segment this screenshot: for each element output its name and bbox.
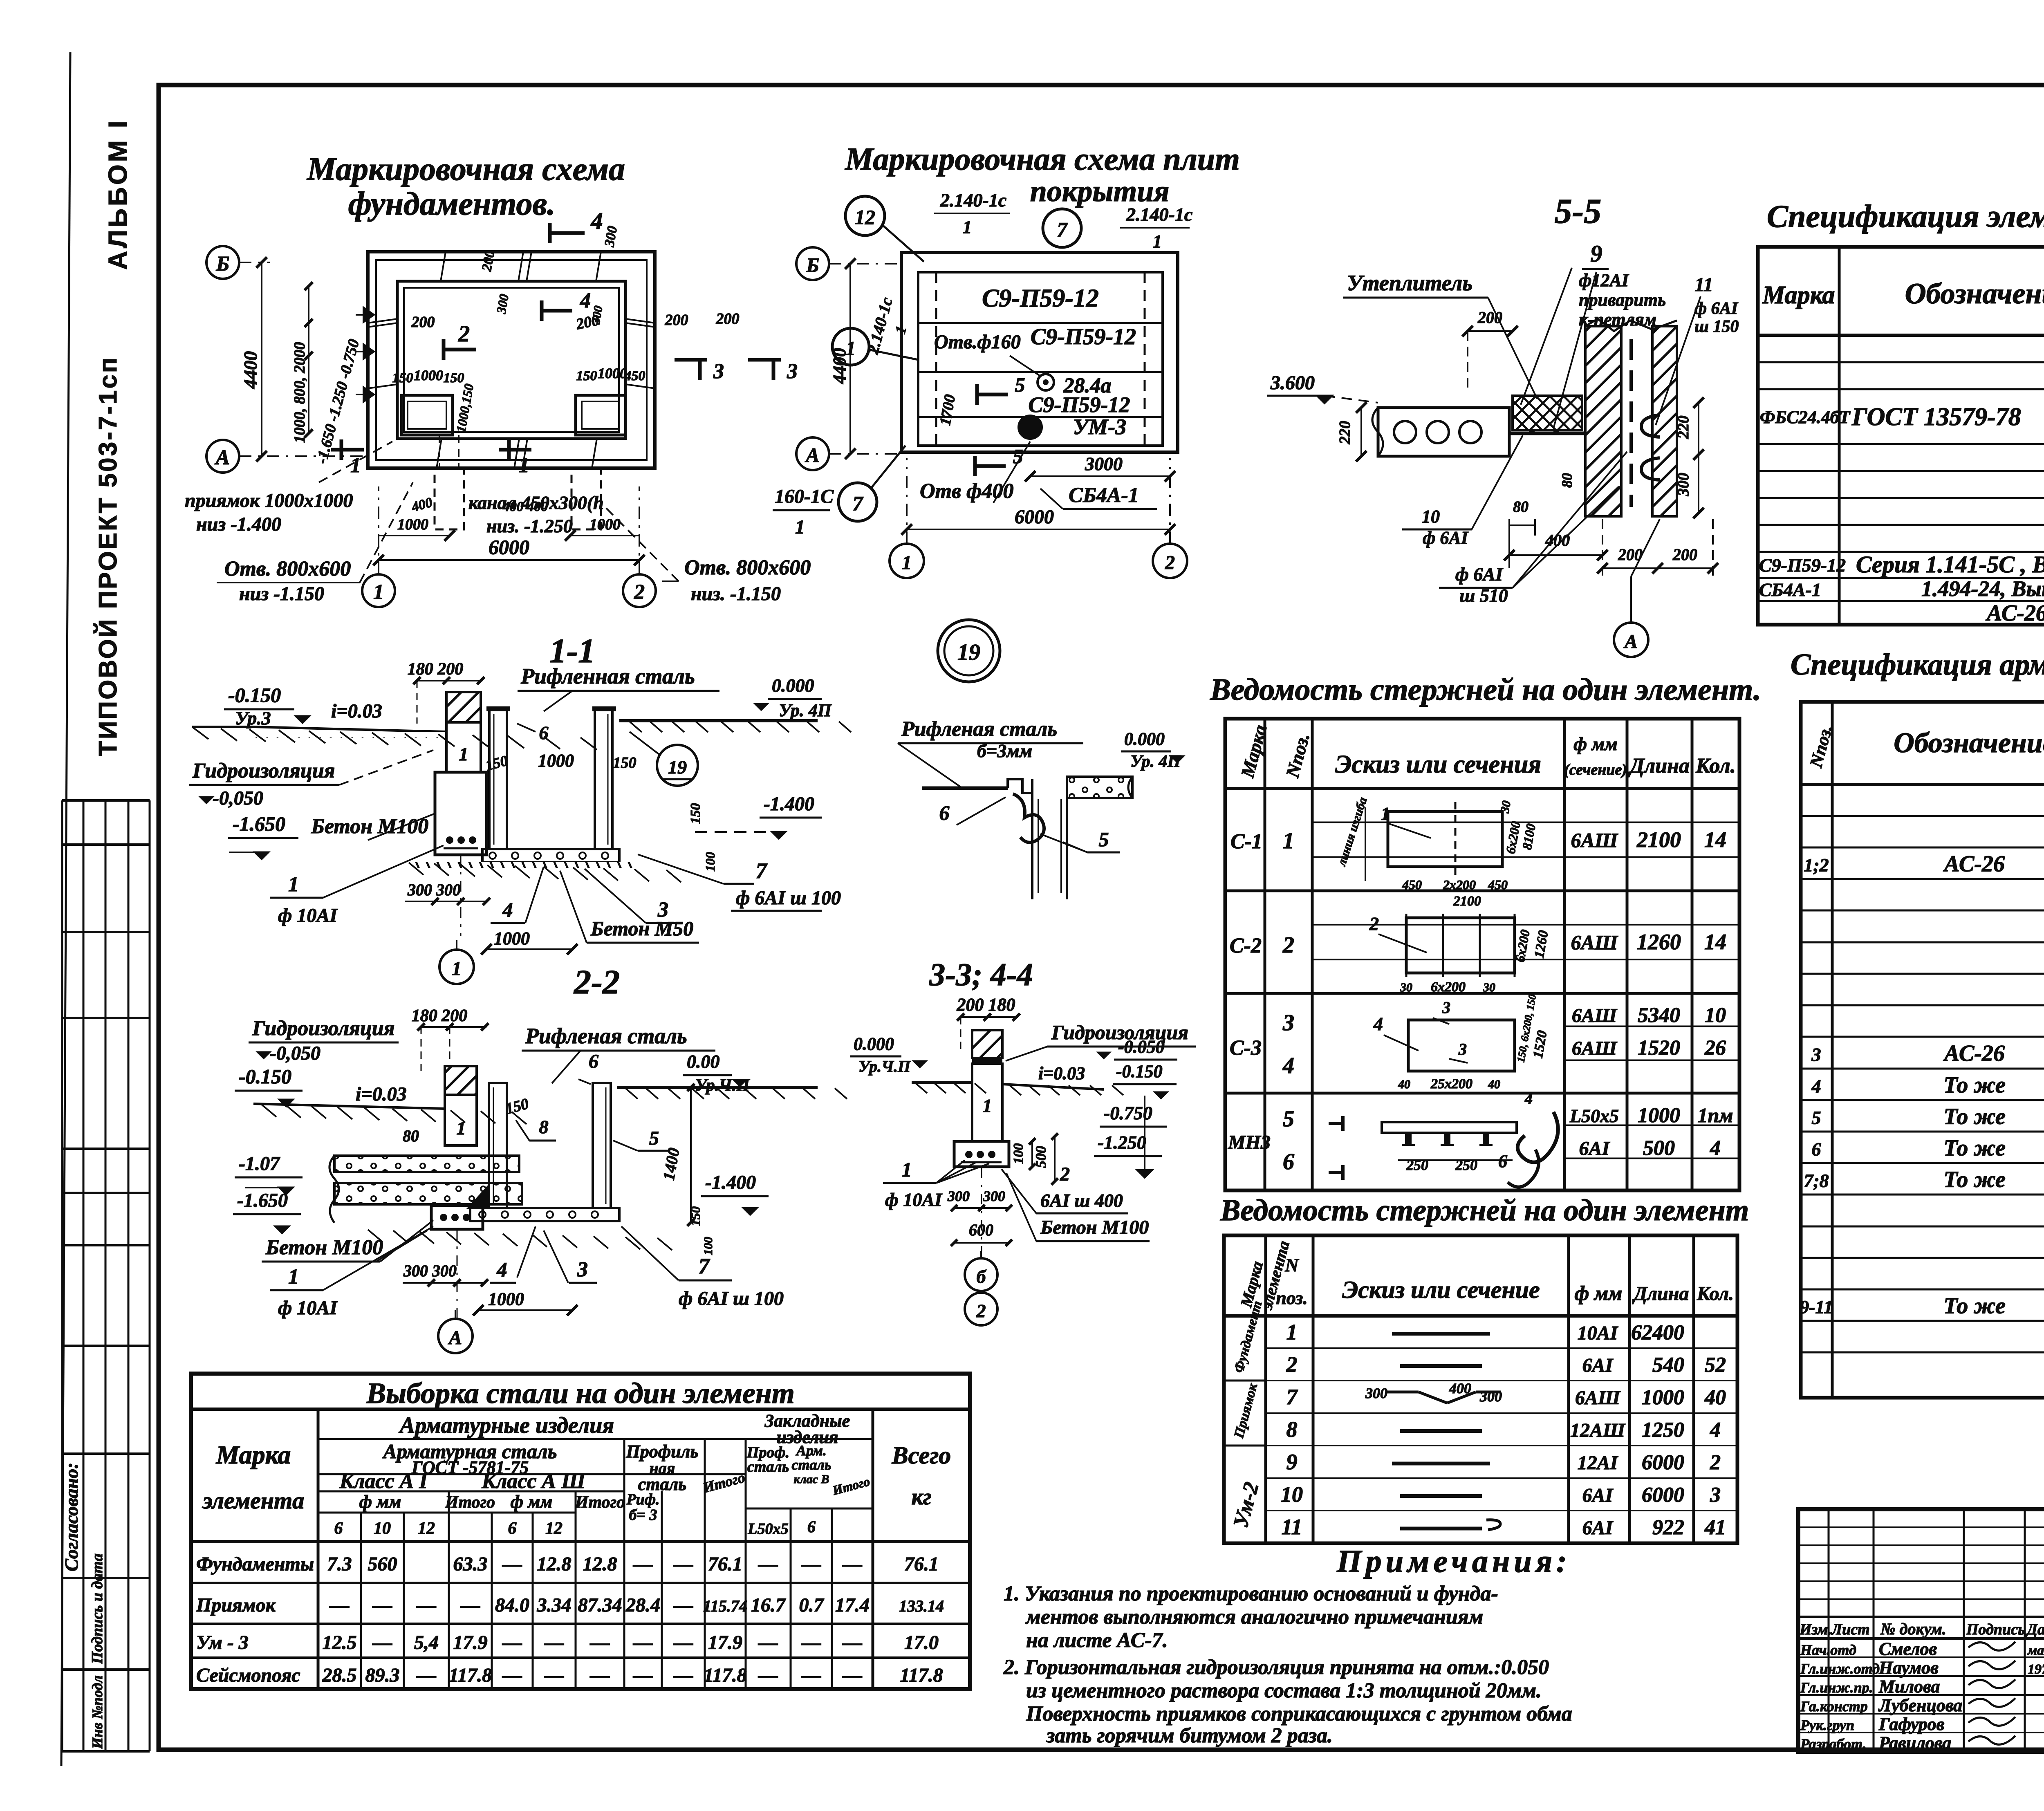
svg-text:2: 2 [1710,1451,1721,1474]
svg-text:Обозначение: Обозначение [1894,727,2044,759]
svg-text:30: 30 [1483,981,1495,994]
svg-text:—: — [502,1632,522,1654]
svg-text:600: 600 [969,1221,993,1239]
svg-text:10АI: 10АI [1578,1322,1619,1344]
svg-text:2.140-1с: 2.140-1с [1126,204,1192,225]
svg-text:84.0: 84.0 [495,1594,529,1616]
sec11 soil under [409,862,638,868]
svg-text:500: 500 [1643,1136,1675,1160]
section mark 1 bottom-mid [507,439,511,460]
svg-text:Га.констр: Га.констр [1800,1698,1868,1715]
svg-text:Рук.груп: Рук.груп [1800,1717,1854,1733]
svg-text:Класс А Ш: Класс А Ш [481,1470,586,1493]
svg-text:5: 5 [1015,373,1025,396]
svg-text:Рифленная сталь: Рифленная сталь [520,664,695,688]
svg-text:200: 200 [479,249,498,273]
detail drawing [922,787,1008,790]
svg-text:N: N [1284,1255,1299,1275]
svg-text:Гл.инж.отд: Гл.инж.отд [1800,1661,1880,1677]
svg-text:7: 7 [699,1254,710,1278]
svg-text:17.0: 17.0 [904,1632,939,1654]
svg-text:—: — [758,1553,778,1575]
sec22 pit bottom angle [468,1186,489,1208]
svg-text:—: — [673,1665,693,1686]
dim 3000 [1030,475,1170,477]
svg-text:-1.650: -1.650 [233,812,285,835]
svg-text:9: 9 [1591,240,1602,267]
vedomost1 grid [1225,719,1739,1190]
svg-text:450: 450 [1488,877,1508,892]
svg-text:62400: 62400 [1631,1321,1684,1345]
svg-text:5: 5 [1812,1107,1821,1128]
svg-text:19: 19 [957,640,980,665]
svg-text:А: А [448,1327,462,1349]
svg-text:200: 200 [1672,545,1697,564]
svg-text:А: А [215,446,230,469]
svg-text:Разработ.: Разработ. [1800,1736,1867,1752]
axis circle 1 plan1 [362,574,395,607]
sec11 ground right [619,719,818,722]
title block small table rows [1798,1526,2044,1528]
sec22 foundation block [431,1206,483,1229]
svg-text:-0.050: -0.050 [1118,1037,1165,1057]
svg-text:26: 26 [1704,1036,1726,1060]
svg-text:клас В: клас В [793,1473,829,1486]
svg-text:2: 2 [1282,932,1294,958]
sec33 column [972,1030,1002,1058]
svg-text:500: 500 [1033,1146,1049,1168]
sec55 insulation [1513,396,1582,430]
svg-text:6: 6 [508,1519,517,1538]
svg-text:—: — [633,1632,653,1654]
svg-text:52: 52 [1705,1354,1726,1377]
axis circle 12 [845,196,885,235]
svg-text:1;2: 1;2 [1804,855,1829,876]
svg-text:приямок 1000x1000: приямок 1000x1000 [185,490,353,511]
svg-text:12: 12 [418,1519,435,1538]
svg-text:6: 6 [939,801,950,824]
svg-text:80: 80 [403,1127,419,1145]
svg-text:400: 400 [410,495,434,515]
svg-text:3: 3 [787,360,798,383]
svg-text:покрытия: покрытия [1030,175,1170,208]
svg-text:Риф.: Риф. [626,1491,659,1508]
svg-text:МН3: МН3 [1228,1132,1271,1153]
svg-text:Отв.ф160: Отв.ф160 [934,331,1021,353]
svg-text:300: 300 [1675,473,1692,497]
svg-text:4: 4 [1373,1013,1383,1034]
svg-text:б: б [977,1266,987,1287]
svg-text:4400: 4400 [240,351,261,389]
svg-text:0.000: 0.000 [772,675,814,696]
sec33 ground [912,1081,972,1084]
svg-text:1: 1 [795,516,805,538]
svg-text:922: 922 [1652,1516,1684,1539]
MN3 hook [1517,1112,1558,1162]
svg-text:12: 12 [545,1519,563,1538]
svg-text:Дата: Дата [2026,1621,2044,1638]
sec11 hatched column top [446,692,481,722]
svg-text:1: 1 [452,958,462,979]
svg-text:6000: 6000 [1642,1451,1684,1474]
svg-text:С-3: С-3 [1230,1036,1262,1060]
svg-text:А: А [805,444,819,466]
svg-text:Изм.: Изм. [1799,1621,1832,1638]
svg-text:Отв. 800x600: Отв. 800x600 [224,557,351,581]
dim chain 1000 800 2000 [308,286,309,433]
svg-text:180 200: 180 200 [412,1006,468,1025]
svg-text:0.000: 0.000 [1124,729,1165,749]
svg-text:АС-26: АС-26 [1986,601,2044,626]
svg-text:160-1С: 160-1С [775,486,834,507]
svg-text:к-петлям: к-петлям [1579,309,1656,329]
svg-text:10: 10 [374,1519,391,1538]
svg-text:Длина: Длина [1628,754,1690,778]
svg-text:0.7: 0.7 [799,1594,825,1616]
svg-text:200: 200 [665,312,688,329]
svg-text:6: 6 [589,1051,598,1072]
svg-text:6: 6 [334,1519,343,1538]
svg-text:С9-П59-12: С9-П59-12 [982,285,1099,312]
svg-text:150: 150 [444,370,464,386]
svg-text:—: — [801,1665,821,1686]
sec22 ground right [617,1086,818,1089]
svg-text:28.4: 28.4 [625,1594,660,1616]
svg-text:1250: 1250 [1642,1419,1684,1442]
svg-text:6АI: 6АI [1582,1355,1614,1376]
svg-text:3.34: 3.34 [537,1594,572,1616]
svg-text:115.74: 115.74 [703,1597,747,1615]
svg-text:Ур. 4П: Ур. 4П [779,700,832,720]
svg-text:С9-П59-12: С9-П59-12 [1759,555,1846,576]
svg-text:4: 4 [1524,1090,1533,1107]
svg-text:150: 150 [688,1206,703,1226]
svg-text:87.34: 87.34 [578,1594,622,1616]
svg-text:1000: 1000 [494,928,530,948]
svg-text:2: 2 [1286,1352,1298,1377]
svg-text:4: 4 [591,208,603,234]
svg-text:2: 2 [1369,913,1379,934]
svg-text:300: 300 [947,1188,970,1204]
sec11 axis 1 [439,950,474,984]
svg-text:4: 4 [580,289,591,312]
svg-text:5: 5 [1283,1106,1294,1132]
svg-text:41: 41 [1704,1516,1726,1539]
svg-text:1.494-24, Вып.1: 1.494-24, Вып.1 [1921,576,2044,601]
svg-text:28.5: 28.5 [322,1665,357,1686]
svg-text:300 300: 300 300 [407,881,461,899]
svg-text:40: 40 [1488,1078,1500,1091]
svg-text:4: 4 [1710,1419,1721,1442]
svg-text:—: — [673,1553,693,1575]
plan2 outer [901,253,1178,452]
svg-text:СБ4А-1: СБ4А-1 [1759,579,1821,600]
svg-text:Длина: Длина [1632,1283,1689,1304]
svg-text:—: — [633,1665,653,1686]
svg-text:С9-П59-12: С9-П59-12 [1029,392,1130,417]
svg-text:300: 300 [1479,1388,1502,1405]
svg-text:Класс А I: Класс А I [339,1470,428,1493]
svg-text:Подпись: Подпись [1966,1621,2025,1638]
svg-text:17.9: 17.9 [453,1632,488,1654]
svg-text:150: 150 [688,803,703,824]
section mark 2 [442,339,446,360]
svg-text:Ум-2: Ум-2 [1229,1480,1264,1530]
svg-text:Милова: Милова [1878,1677,1940,1697]
sec22 pit floor slab [470,1208,619,1221]
signature squiggles [1968,1642,2015,1650]
svg-text:приварить: приварить [1579,290,1666,310]
svg-text:ф 6АI: ф 6АI [1423,528,1469,548]
sec55 dim 200 200 [1602,567,1713,569]
vedomost1 sub rows right columns [1312,822,1627,823]
sec55 wall rebar loops [1629,339,1633,507]
svg-text:Кол.: Кол. [1697,1283,1734,1304]
vedomost2 bent bar row 7 [1386,1391,1419,1394]
svg-text:Ведомость стержней на один эле: Ведомость стержней на один элемент. [1210,672,1761,707]
axis circle 2 plan1 [623,574,656,607]
svg-text:L50x5: L50x5 [1569,1105,1619,1126]
svg-text:ф мм: ф мм [1573,733,1617,754]
svg-text:6АI: 6АI [1582,1517,1614,1539]
svg-text:1520: 1520 [1530,1029,1550,1059]
svg-text:12АШ: 12АШ [1570,1420,1626,1441]
svg-text:Сейсмопояс: Сейсмопояс [196,1665,300,1686]
svg-text:220: 220 [1336,421,1354,445]
dim 6000 bottom plan1 [379,559,639,561]
svg-text:—: — [544,1632,564,1654]
svg-text:220: 220 [1675,416,1692,439]
svg-text:4: 4 [502,898,513,921]
svg-text:2: 2 [634,581,645,604]
svg-text:6: 6 [807,1517,816,1536]
svg-text:Марка: Марка [216,1440,291,1469]
svg-text:2: 2 [458,321,470,347]
svg-text:№ докум.: № докум. [1880,1620,1946,1638]
svg-text:1: 1 [902,1158,912,1181]
svg-text:6: 6 [1498,1151,1507,1171]
svg-text:12.8: 12.8 [583,1553,617,1575]
section mark 4 inner [540,300,544,321]
svg-text:6: 6 [1283,1149,1294,1174]
svg-text:элемента: элемента [202,1487,304,1514]
svg-text:16.7: 16.7 [751,1594,786,1616]
svg-text:1: 1 [1381,804,1390,824]
svg-text:450: 450 [1402,877,1422,892]
svg-text:Nпоз.: Nпоз. [1282,731,1313,780]
svg-text:1: 1 [288,1265,299,1289]
svg-text:6АШ: 6АШ [1571,829,1618,852]
svg-text:Примечания:: Примечания: [1336,1543,1571,1579]
svg-text:133.14: 133.14 [899,1597,944,1615]
svg-text:—: — [372,1594,392,1616]
svg-text:6000: 6000 [1642,1484,1684,1507]
vyborka header grid [317,1409,320,1689]
svg-text:-0,050: -0,050 [213,787,263,809]
svg-text:40: 40 [1704,1386,1726,1409]
svg-text:1: 1 [350,454,361,477]
svg-text:1979г: 1979г [2028,1662,2044,1677]
svg-text:1700: 1700 [937,393,959,427]
svg-text:150: 150 [576,368,597,383]
svg-text:560: 560 [368,1553,397,1575]
svg-text:63.3: 63.3 [453,1553,488,1575]
dim 4400 vertical plan1 [261,262,262,456]
sec11 19 circle [657,745,698,786]
svg-text:ф мм: ф мм [359,1492,401,1512]
svg-text:1: 1 [1286,1320,1298,1345]
axis circle A plan1 [206,440,239,473]
svg-text:3: 3 [1458,1040,1467,1058]
svg-text:11: 11 [1281,1515,1302,1539]
svg-text:ф 10АI: ф 10АI [885,1189,943,1210]
svg-text:300 300: 300 300 [403,1262,457,1280]
svg-text:—: — [590,1632,610,1654]
svg-text:76.1: 76.1 [904,1553,939,1575]
svg-text:12: 12 [855,206,875,229]
svg-text:Арматурные изделия: Арматурные изделия [399,1413,614,1438]
sec55 top break [1585,319,1677,331]
svg-text:Итого: Итого [701,1469,747,1496]
svg-text:-0.150: -0.150 [239,1065,291,1088]
sec22 ground left [253,1104,445,1109]
svg-text:АС-26: АС-26 [1943,1041,2005,1066]
svg-text:ш 150: ш 150 [1694,317,1739,336]
svg-text:-1.650: -1.650 [237,1190,288,1211]
sec55 hollow core slab [1378,408,1509,456]
svg-text:7: 7 [1286,1385,1298,1409]
svg-text:100: 100 [703,852,717,872]
svg-text:5340: 5340 [1638,1004,1680,1027]
svg-text:3: 3 [577,1258,588,1281]
svg-text:6000: 6000 [1015,506,1054,528]
svg-text:низ. -1.250: низ. -1.250 [486,516,573,536]
svg-text:6000: 6000 [489,536,529,558]
axis circle 7 bottom [838,483,877,521]
svg-text:Ум - 3: Ум - 3 [196,1632,249,1654]
svg-text:То же: То же [1943,1167,2006,1192]
svg-text:3: 3 [1282,1010,1294,1035]
svg-text:4: 4 [1282,1053,1294,1078]
svg-text:200: 200 [574,312,601,333]
svg-text:—: — [673,1594,693,1616]
section marks 5 [975,384,979,405]
svg-text:Профиль: Профиль [626,1441,699,1461]
svg-text:1: 1 [902,552,912,574]
sec11 foundation block [435,772,486,855]
vyborka body rows [191,1540,970,1543]
svg-text:19: 19 [668,757,687,778]
svg-text:4: 4 [497,1258,507,1281]
sec11 pit top angles [486,706,510,711]
svg-text:-0,050: -0,050 [270,1042,320,1064]
svg-text:-1.250: -1.250 [1098,1132,1146,1153]
svg-text:1пм: 1пм [1697,1104,1733,1127]
svg-text:40: 40 [1398,1078,1410,1091]
svg-text:низ. -1.150: низ. -1.150 [691,583,781,605]
svg-text:А: А [1623,631,1638,652]
svg-text:Бетон М100: Бетон М100 [265,1236,383,1259]
svg-text:10: 10 [1422,507,1440,527]
plan1 walls [368,252,655,468]
svg-text:17.9: 17.9 [708,1632,742,1654]
plan1 pit 1 [401,395,453,435]
svg-text:Нач.отд: Нач.отд [1800,1642,1856,1658]
sheet edge left [61,52,70,1766]
svg-text:фундаментов.: фундаментов. [348,186,555,222]
svg-text:зать горячим битумом 2 раз: зать горячим битумом 2 раза. [1046,1724,1333,1747]
svg-text:100: 100 [1011,1143,1026,1164]
svg-text:6x200: 6x200 [1503,820,1523,855]
svg-text:1000, 800, 2000: 1000, 800, 2000 [291,342,308,443]
svg-text:—: — [842,1665,862,1686]
sec22 pit walls [489,1083,507,1208]
svg-text:Кол.: Кол. [1695,754,1736,778]
svg-text:300: 300 [983,1188,1005,1204]
svg-text:АЛЬБОМ I: АЛЬБОМ I [103,118,132,270]
plan1 canal stubs below [435,468,464,529]
svg-text:май: май [2027,1643,2044,1658]
axis circle B plan1 [206,246,239,279]
svg-text:Лубенцова: Лубенцова [1878,1695,1962,1715]
svg-text:ФБС24.4бТ: ФБС24.4бТ [1760,407,1851,427]
sec55 wall hatched [1585,326,1621,516]
svg-text:6АШ: 6АШ [1572,1038,1618,1059]
axis circle 7 top [1043,209,1081,247]
svg-text:1: 1 [846,338,856,359]
svg-text:1: 1 [963,217,972,237]
axis circle B shared [796,247,829,280]
svg-text:ф 6АI: ф 6АI [1455,564,1504,585]
dim 6000 plan2 [907,529,1170,530]
svg-text:Лист: Лист [1831,1621,1870,1638]
svg-text:7;8: 7;8 [1804,1170,1829,1191]
svg-text:Марка: Марка [1762,281,1835,309]
axis circle 2 bottom plan2 [1153,544,1187,578]
svg-text:—: — [842,1632,862,1654]
svg-text:Арм.: Арм. [796,1442,827,1459]
svg-text:ф мм: ф мм [511,1492,553,1512]
svg-text:Гидроизоляция: Гидроизоляция [192,759,335,782]
sec33 foundation [954,1141,1009,1167]
svg-text:сталь: сталь [747,1458,789,1475]
svg-text:300: 300 [1365,1385,1387,1401]
svg-text:0.000: 0.000 [854,1034,894,1054]
svg-text:То же: То же [1943,1073,2006,1098]
svg-text:—: — [758,1665,778,1686]
svg-text:Итого: Итого [831,1474,872,1498]
svg-text:117.8: 117.8 [900,1665,943,1686]
svg-text:-1.400: -1.400 [705,1172,756,1193]
svg-text:30: 30 [1400,981,1412,994]
plan2 plate lines [918,322,1163,324]
axis circle 1 bottom plan2 [890,544,924,578]
svg-text:Гидроизоляция: Гидроизоляция [252,1017,394,1040]
svg-text:ТИПОВОЙ ПРОЕКТ 503-7-1сп: ТИПОВОЙ ПРОЕКТ 503-7-1сп [94,356,122,756]
svg-text:150: 150 [392,370,413,386]
svg-text:ф 6АI ш 100: ф 6АI ш 100 [736,887,841,909]
svg-text:1260: 1260 [1637,930,1681,954]
svg-text:Б: Б [806,253,819,276]
svg-text:300: 300 [602,225,620,249]
svg-text:Приямок: Приямок [196,1594,276,1616]
svg-text:кг: кг [911,1484,931,1510]
svg-text:Отв. 800x600: Отв. 800x600 [684,556,811,579]
svg-text:12.5: 12.5 [323,1632,357,1654]
section mark 3 right pair [675,358,707,362]
svg-text:Фундаменты: Фундаменты [196,1553,314,1575]
svg-text:6: 6 [1812,1139,1821,1160]
